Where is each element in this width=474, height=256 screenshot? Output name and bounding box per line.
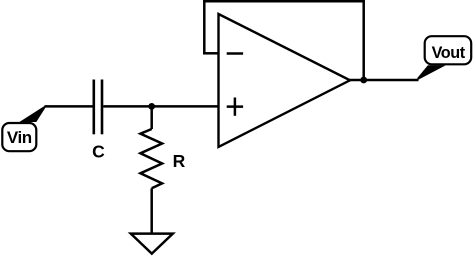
wire feedback right vertical down to output node: [362, 0, 365, 80]
wire feedback top horizontal: [203, 0, 365, 2]
wire capacitor to op-amp + input: [103, 105, 218, 108]
resistor R: [140, 129, 162, 188]
wire feedback left vertical: [203, 0, 206, 55]
flag from Vin label to wire: [19, 105, 45, 122]
net label Vout: [425, 36, 472, 64]
wire node down to resistor: [150, 106, 153, 129]
node junction at resistor top: [148, 103, 155, 110]
op-amp non-inverting input plus sign: [227, 98, 243, 116]
wire Vin to capacitor C1 left plate: [45, 105, 93, 108]
op-amp inverting input minus sign: [227, 52, 243, 55]
net label Vin: [2, 123, 36, 151]
wire feedback stub to inverting input: [203, 52, 218, 55]
wire op-amp output to Vout: [350, 79, 419, 82]
svg-text:Vin: Vin: [7, 128, 32, 147]
svg-text:R: R: [173, 151, 186, 171]
node junction at output: [360, 77, 367, 84]
ground: [131, 234, 173, 254]
wire resistor to ground: [150, 188, 153, 233]
flag from wire to Vout label: [417, 65, 446, 80]
svg-text:C: C: [92, 141, 105, 161]
op-amp U1 triangle: [219, 14, 351, 147]
capacitor C: [94, 80, 102, 135]
svg-text:Vout: Vout: [432, 44, 466, 62]
